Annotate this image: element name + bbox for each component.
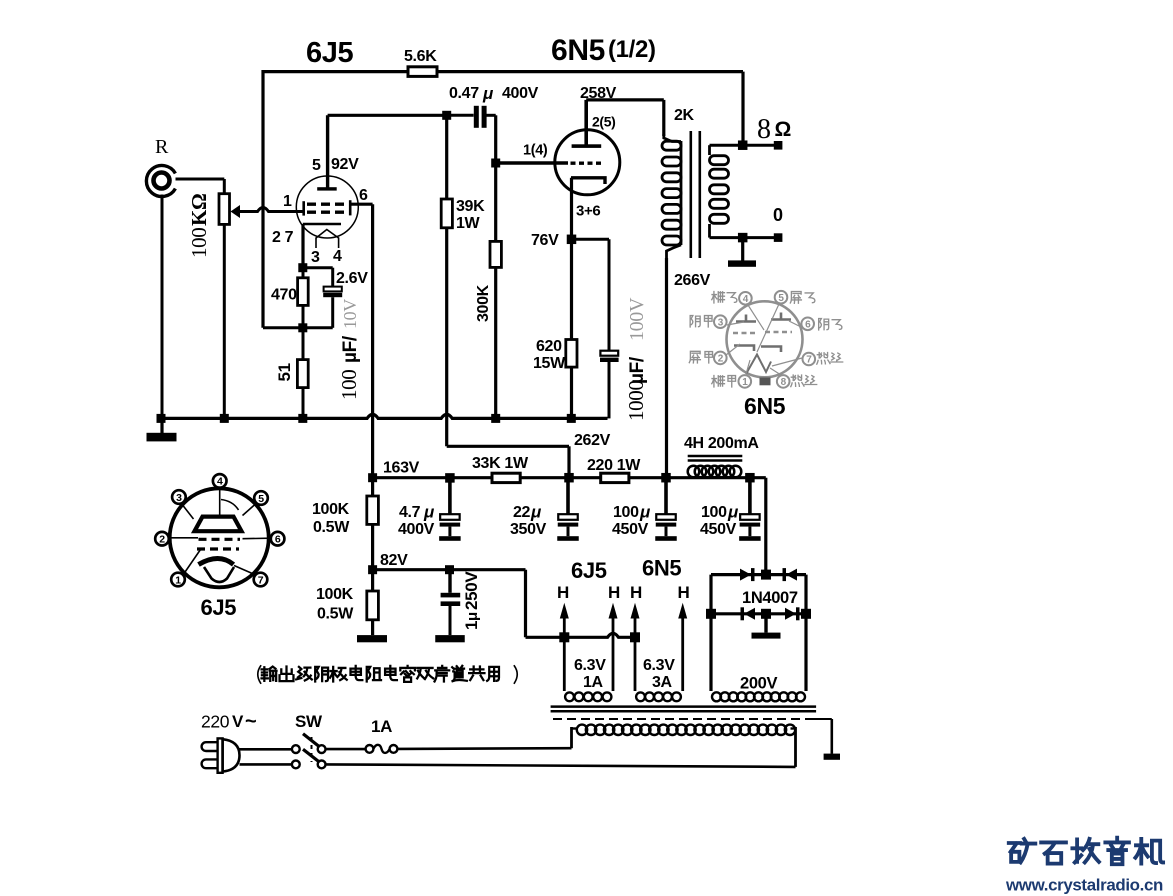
- wire bridge right: [804, 575, 807, 691]
- wire switch to fuse: [326, 748, 366, 751]
- svg-text:10V: 10V: [340, 299, 360, 329]
- label plate-A pin2: [689, 351, 712, 363]
- terminal 8ohm: [743, 141, 783, 150]
- 6J5 pinout envelope: [170, 488, 269, 587]
- wire 82V line: [373, 568, 526, 571]
- svg-text:4: 4: [743, 294, 749, 305]
- diode D3: [741, 607, 756, 620]
- 6N5 grid dashes: [571, 161, 604, 164]
- winding 6.3V 3A: [636, 692, 681, 701]
- 6N5 pinout heater: [746, 355, 771, 375]
- transformer OPT secondary: [710, 145, 743, 237]
- winding 6.3V 1A: [565, 692, 611, 701]
- heater arrow 4: [678, 603, 687, 691]
- svg-text:H: H: [630, 583, 642, 602]
- label grid-B pin4: [712, 292, 737, 303]
- label 0.47u 400V: [449, 84, 539, 103]
- node heater w1: [559, 632, 569, 642]
- label 100u 450V b: [700, 503, 739, 539]
- label grid-A pin1: [712, 376, 736, 387]
- svg-text:100K: 100K: [316, 586, 354, 603]
- node 0 junction: [738, 233, 748, 243]
- 6N5 pinout pin1: [739, 375, 752, 388]
- svg-text:~: ~: [245, 711, 256, 733]
- label SW: [295, 712, 323, 731]
- 6N5 pinout grid: [733, 332, 792, 333]
- node cathode junction: [298, 263, 307, 272]
- label 33K 1W: [472, 455, 529, 472]
- diode D1: [740, 568, 755, 581]
- label 100K 0.5W upper: [312, 501, 350, 536]
- 6N5 pinout lines: [726, 304, 802, 375]
- label 6J5 stage title: [306, 37, 354, 69]
- label 6J5 pinout: [201, 595, 237, 620]
- 6J5 pinout pin4: [213, 474, 227, 488]
- wire fuse to PT primary: [397, 747, 571, 750]
- label 220 1W: [587, 457, 641, 474]
- svg-text:2: 2: [718, 354, 724, 365]
- label pin7 heater: [817, 353, 843, 365]
- node coupling junction: [442, 111, 451, 120]
- svg-text:µF/: µF/: [627, 356, 648, 384]
- 6N5 pinout plates: [736, 313, 791, 322]
- 6J5 pinout pin1: [171, 573, 185, 587]
- potentiometer 100K: [219, 179, 230, 418]
- label cathode-A pin3: [690, 316, 712, 327]
- node bus 300K: [491, 414, 500, 423]
- label 5.6K: [404, 48, 437, 65]
- svg-text:100: 100: [613, 504, 639, 521]
- svg-text:3A: 3A: [652, 674, 673, 691]
- label 2K: [674, 107, 695, 124]
- svg-text:μ: μ: [482, 84, 494, 103]
- node choke out junction: [745, 473, 755, 483]
- svg-text:6J5: 6J5: [571, 558, 607, 583]
- wire jack to pot: [176, 178, 225, 181]
- svg-text:450V: 450V: [612, 521, 649, 538]
- svg-text:1: 1: [283, 193, 292, 210]
- label 620 15W: [533, 338, 566, 372]
- 6N5 pinout pin5: [775, 291, 788, 304]
- node heater w2: [630, 632, 640, 642]
- transformer OPT core: [691, 131, 700, 258]
- svg-text:4H 200mA: 4H 200mA: [684, 435, 759, 452]
- svg-text:200V: 200V: [740, 675, 777, 693]
- svg-text:3: 3: [176, 492, 182, 504]
- label 1(4): [523, 143, 548, 159]
- diode D4: [785, 607, 800, 620]
- 6J5 grid: [302, 200, 351, 215]
- resistor 220 1W: [601, 473, 629, 482]
- resistor 39K 1W: [441, 115, 452, 228]
- svg-text:1: 1: [175, 574, 181, 586]
- wire wiper to grid: [240, 208, 304, 212]
- wire 39K to 262V: [447, 228, 569, 478]
- wire ground bus: [161, 414, 608, 418]
- choke 4H 200mA: [688, 456, 743, 477]
- svg-text:2: 2: [159, 533, 165, 545]
- svg-text:6N5: 6N5: [551, 34, 605, 67]
- svg-text:7: 7: [806, 355, 812, 366]
- label 3+6: [576, 203, 600, 220]
- label 6.3V 3A: [643, 657, 675, 691]
- label H4: [678, 583, 690, 602]
- svg-text:V: V: [232, 712, 244, 731]
- svg-text:51: 51: [275, 363, 294, 381]
- 6J5 plate: [317, 115, 337, 190]
- svg-text:100: 100: [337, 370, 361, 400]
- label 6.3V 1A: [574, 657, 606, 691]
- wire junction to bypass cap: [303, 268, 333, 287]
- label 4.7u 400V: [398, 503, 435, 539]
- svg-text:400V: 400V: [398, 521, 435, 538]
- svg-text:0: 0: [773, 205, 783, 225]
- svg-text:6.3V: 6.3V: [574, 657, 606, 674]
- label 200V: [740, 675, 777, 693]
- 6J5 pinout pin3: [172, 490, 186, 504]
- svg-text:22: 22: [513, 504, 531, 521]
- capacitor 1u 250V: [441, 570, 461, 635]
- wire bridge left: [709, 575, 712, 691]
- 6J5 pin6 wire: [351, 204, 373, 478]
- svg-text:2 7: 2 7: [272, 229, 294, 246]
- resistor 620 15W: [566, 239, 577, 418]
- wire 76V to 1000u: [572, 239, 610, 350]
- label 6N5 stage title: [551, 34, 656, 67]
- winding 200V: [712, 692, 805, 701]
- wire 258V plate to transformer: [586, 100, 664, 136]
- svg-text:100K: 100K: [312, 501, 350, 518]
- svg-text:250V: 250V: [462, 571, 481, 610]
- wire grid junction down: [494, 163, 497, 241]
- node bridge left mid: [706, 609, 716, 619]
- capacitor 22u 350V: [557, 482, 579, 541]
- heater arrow 3: [631, 603, 640, 691]
- node 1u junction: [445, 565, 454, 574]
- label 82V: [380, 552, 408, 569]
- svg-text:300K: 300K: [475, 284, 492, 322]
- svg-text:6J5: 6J5: [201, 595, 237, 620]
- svg-text:2K: 2K: [674, 107, 695, 124]
- label 100u 450V a: [612, 503, 651, 539]
- label 1000uF/100V: [624, 297, 648, 421]
- svg-text:5.6K: 5.6K: [404, 48, 437, 65]
- 6N5 pinout pin3: [714, 315, 727, 328]
- label 266V: [674, 272, 711, 289]
- switch SW bottom: [292, 749, 326, 768]
- label R: [155, 136, 169, 158]
- 6J5 pinout plate: [195, 517, 242, 532]
- watermark url: [1005, 876, 1163, 895]
- wire 82V to heater line: [526, 570, 636, 638]
- wire cap to 6N5 grid: [494, 115, 497, 163]
- wire plate to coupling cap: [328, 114, 447, 117]
- svg-text:220 1W: 220 1W: [587, 457, 641, 474]
- 6N5 pinout pin8: [777, 375, 790, 388]
- 6J5 heater: [316, 230, 339, 249]
- 6N5 pinout pin2: [714, 352, 727, 365]
- svg-text:220: 220: [201, 712, 230, 732]
- svg-text:100V: 100V: [626, 297, 648, 341]
- resistor 470: [298, 268, 309, 306]
- svg-text:8: 8: [757, 114, 771, 145]
- input jack R: [146, 166, 175, 197]
- svg-text:3+6: 3+6: [576, 203, 600, 220]
- wire 470 to 51: [263, 305, 333, 359]
- node bus 51: [298, 414, 307, 423]
- node 4.7u junction: [445, 473, 455, 483]
- ground 100K lower: [357, 635, 387, 642]
- svg-text:39K: 39K: [456, 198, 485, 215]
- svg-text:6: 6: [275, 533, 281, 545]
- resistor 100K 0.5W lower: [367, 570, 379, 635]
- svg-text:4: 4: [217, 476, 223, 488]
- heater arrow 1: [560, 603, 569, 691]
- label 8 Ohm: [757, 114, 791, 145]
- pot wiper arrow: [231, 205, 241, 218]
- resistor 100K 0.5W upper: [367, 478, 379, 570]
- label H1: [557, 583, 569, 602]
- svg-text:1A: 1A: [371, 717, 392, 736]
- label pin 5: [312, 157, 321, 174]
- wire feedback top: [263, 70, 743, 328]
- node 8ohm junction: [738, 140, 748, 150]
- svg-text:0.5W: 0.5W: [317, 606, 354, 623]
- label H3: [630, 583, 642, 602]
- 6N5 pinout cathodes: [734, 346, 781, 353]
- svg-text:www.crystalradio.cn: www.crystalradio.cn: [1005, 876, 1163, 895]
- diode D2: [783, 568, 798, 581]
- svg-text:4.7: 4.7: [399, 504, 421, 521]
- capacitor 100uF/10V 2.6V: [323, 287, 342, 328]
- ground main: [147, 418, 177, 441]
- node bus 620: [567, 414, 576, 423]
- capacitor 100u 450V b: [739, 482, 761, 541]
- svg-text:6N5: 6N5: [744, 393, 786, 419]
- svg-text:µF/: µF/: [340, 335, 361, 363]
- label 92V: [331, 156, 359, 173]
- label 2(5): [592, 114, 616, 130]
- label 6N5 heater: [642, 556, 681, 581]
- node 82V junction: [368, 565, 377, 574]
- svg-text:4: 4: [333, 248, 342, 265]
- switch gang link: [311, 737, 313, 762]
- label 100K 0.5W lower: [316, 586, 354, 623]
- tube 6J5 envelope: [296, 176, 358, 238]
- node bus jack: [157, 414, 166, 423]
- svg-text:6: 6: [805, 319, 811, 330]
- node 470-51 junction: [298, 323, 307, 332]
- 6J5 cathode lead: [301, 224, 304, 268]
- svg-text:1000: 1000: [624, 380, 648, 421]
- node bridge minus: [761, 609, 771, 619]
- label pin5 plate-B: [790, 292, 815, 304]
- wire bridge mid row: [711, 612, 806, 615]
- label 2.6V: [336, 270, 368, 287]
- svg-text:5: 5: [778, 293, 784, 304]
- label pins 2 7: [272, 229, 294, 246]
- svg-text:3: 3: [311, 249, 320, 266]
- svg-text:SW: SW: [295, 712, 323, 731]
- svg-text:400V: 400V: [502, 85, 539, 102]
- label 258V: [580, 85, 617, 102]
- fuse 1A: [366, 745, 398, 753]
- caption dual-channel note: [258, 666, 517, 683]
- ground 1u cap: [435, 635, 465, 642]
- wire grid junction to tube: [496, 161, 568, 164]
- wire jack ground lead: [161, 195, 164, 419]
- node bridge right mid: [801, 609, 811, 619]
- label 22u 350V: [510, 503, 547, 539]
- label 4H 200mA: [684, 435, 759, 452]
- label 6N5 pinout: [744, 393, 786, 419]
- svg-text:1(4): 1(4): [523, 143, 548, 159]
- svg-text:5: 5: [258, 493, 264, 505]
- 6J5 pinout pin6: [271, 532, 285, 546]
- svg-text:92V: 92V: [331, 156, 359, 173]
- svg-text:262V: 262V: [574, 432, 611, 449]
- svg-text:μ: μ: [639, 503, 651, 522]
- terminal 0: [743, 233, 783, 242]
- resistor 300K: [490, 241, 501, 418]
- 6J5 pinout grid: [197, 539, 240, 549]
- svg-text:7: 7: [258, 574, 264, 586]
- label 76V: [531, 232, 559, 249]
- resistor 5.6K: [408, 67, 437, 77]
- wire plug to switch top: [240, 748, 293, 751]
- 6N5 cathode: [571, 178, 605, 240]
- svg-text:6N5: 6N5: [642, 556, 681, 581]
- 6J5 pinout pin2: [155, 532, 169, 546]
- svg-text:266V: 266V: [674, 272, 711, 289]
- transformer PT shield: [553, 718, 832, 720]
- capacitor 100u 450V a: [655, 482, 677, 541]
- label 100uF/10V: [337, 299, 361, 400]
- wire B+ rail: [373, 478, 766, 575]
- transformer OPT primary: [662, 134, 681, 258]
- label 6J5 heater: [571, 558, 607, 583]
- capacitor 4.7u 400V: [439, 482, 461, 541]
- svg-text:100: 100: [187, 228, 211, 258]
- svg-text:163V: 163V: [383, 460, 420, 477]
- 6J5 pinout pin5: [254, 491, 268, 505]
- label pin 4: [333, 248, 342, 265]
- capacitor 1000uF/100V: [600, 351, 619, 419]
- svg-text:33K 1W: 33K 1W: [472, 455, 529, 472]
- label pin6 cathode-B: [819, 319, 842, 330]
- svg-text:5: 5: [312, 157, 321, 174]
- watermark crystalradio logo: [1009, 838, 1163, 865]
- svg-text:2.6V: 2.6V: [336, 270, 368, 287]
- 6N5 pinout pin6: [801, 318, 814, 331]
- svg-text:1: 1: [462, 621, 481, 630]
- plug 220V: [202, 738, 240, 772]
- svg-text:82V: 82V: [380, 552, 408, 569]
- wire top to 8ohm: [741, 72, 744, 146]
- resistor 51: [297, 360, 308, 419]
- svg-text:μ: μ: [727, 503, 739, 522]
- svg-text:76V: 76V: [531, 232, 559, 249]
- label 262V: [574, 432, 611, 449]
- 6J5 cathode: [303, 223, 341, 225]
- svg-text:μ: μ: [423, 503, 435, 522]
- label 1N4007: [742, 589, 798, 607]
- label 39K 1W: [456, 198, 485, 232]
- label 0: [773, 205, 783, 225]
- svg-text:450V: 450V: [700, 521, 737, 538]
- label 163V: [383, 460, 420, 477]
- wire 266V: [665, 258, 668, 478]
- label 300K: [475, 284, 492, 322]
- 6N5 pinout key: [760, 378, 771, 386]
- switch SW top: [292, 734, 326, 753]
- ground bridge: [752, 614, 781, 639]
- node 262V junction: [564, 473, 574, 483]
- svg-text:KΩ: KΩ: [187, 194, 211, 226]
- label 51: [275, 363, 294, 381]
- tube 6N5 envelope: [555, 130, 620, 195]
- label pin8 heater: [791, 375, 817, 387]
- svg-text:H: H: [608, 583, 620, 602]
- svg-text:350V: 350V: [510, 521, 547, 538]
- svg-text:Ω: Ω: [775, 118, 792, 141]
- svg-text:μ: μ: [530, 503, 542, 522]
- svg-text:6.3V: 6.3V: [643, 657, 675, 674]
- 6N5 pinout envelope: [727, 301, 803, 377]
- svg-text:1: 1: [742, 377, 748, 388]
- 6N5 pinout pin7: [803, 353, 816, 366]
- 6N5 pinout pin4: [739, 292, 752, 305]
- label 1u 250V: [462, 571, 481, 630]
- ground shield: [824, 719, 840, 760]
- label 220V~: [201, 711, 256, 733]
- label 100KOhm: [187, 194, 211, 258]
- node 6N5 grid junction: [491, 159, 500, 168]
- svg-text:R: R: [155, 136, 169, 158]
- svg-text:1W: 1W: [456, 215, 481, 232]
- svg-text:1N4007: 1N4007: [742, 589, 798, 607]
- svg-text:2(5): 2(5): [592, 114, 616, 130]
- label 1A: [371, 717, 392, 736]
- svg-text:15W: 15W: [533, 355, 566, 372]
- label pin 6: [359, 187, 368, 204]
- svg-text:1A: 1A: [583, 674, 604, 691]
- label pin 3: [311, 249, 320, 266]
- wire PT primary return: [326, 764, 796, 767]
- 6J5 pinout pin lines: [169, 488, 271, 575]
- svg-text:620: 620: [536, 338, 562, 355]
- node bridge plus: [761, 570, 771, 580]
- label H2: [608, 583, 620, 602]
- node bus pot: [220, 414, 229, 423]
- wire bridge top row: [711, 573, 806, 576]
- node 76V junction: [567, 235, 577, 245]
- 6N5 plate: [572, 100, 602, 148]
- svg-text:H: H: [557, 583, 569, 602]
- label 470: [271, 287, 297, 304]
- svg-text:6: 6: [359, 187, 368, 204]
- svg-text:8: 8: [781, 377, 787, 388]
- heater arrow 2: [609, 603, 618, 691]
- winding PT primary: [572, 725, 796, 767]
- svg-text:H: H: [678, 583, 690, 602]
- label pin 1: [283, 193, 292, 210]
- svg-text:6J5: 6J5: [306, 37, 354, 69]
- svg-text:470: 470: [271, 287, 297, 304]
- capacitor 0.47u 400V: [447, 106, 496, 128]
- svg-text:100: 100: [701, 504, 727, 521]
- svg-text:μ: μ: [464, 612, 481, 621]
